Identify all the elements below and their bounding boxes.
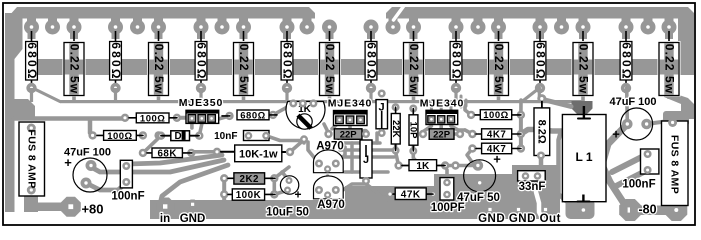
- svg-text:680Ω: 680Ω: [109, 42, 123, 80]
- svg-text:10P: 10P: [408, 122, 419, 140]
- svg-text:22P: 22P: [340, 129, 358, 140]
- svg-text:100Ω: 100Ω: [483, 110, 508, 121]
- svg-text:22K: 22K: [390, 120, 401, 138]
- svg-text:100Ω: 100Ω: [107, 131, 132, 142]
- svg-text:10nF: 10nF: [214, 131, 237, 142]
- svg-text:0.22 5w: 0.22 5w: [492, 44, 506, 94]
- svg-text:680Ω: 680Ω: [619, 42, 633, 80]
- svg-text:2K2: 2K2: [240, 174, 260, 185]
- svg-text:FUS 8 AMP: FUS 8 AMP: [25, 129, 37, 188]
- svg-text:MJE340: MJE340: [420, 98, 465, 110]
- svg-text:MJE340: MJE340: [328, 97, 373, 109]
- svg-text:680Ω: 680Ω: [364, 42, 378, 80]
- svg-text:0.22 5w: 0.22 5w: [237, 44, 251, 94]
- svg-text:10uF 50: 10uF 50: [266, 207, 309, 219]
- svg-text:0.22 5w: 0.22 5w: [323, 44, 337, 94]
- svg-text:1K: 1K: [416, 161, 430, 172]
- svg-text:47uF 50: 47uF 50: [457, 192, 500, 204]
- svg-text:0.22 5w: 0.22 5w: [662, 44, 676, 94]
- svg-text:-80: -80: [638, 203, 656, 217]
- svg-text:4K7: 4K7: [487, 130, 507, 141]
- svg-text:100Ω: 100Ω: [140, 113, 165, 124]
- svg-text:MJE350: MJE350: [179, 97, 224, 109]
- svg-text:680Ω: 680Ω: [194, 42, 208, 80]
- svg-text:0.22 5w: 0.22 5w: [576, 44, 590, 94]
- svg-text:100K: 100K: [236, 190, 261, 201]
- svg-text:680Ω: 680Ω: [25, 42, 39, 80]
- svg-text:GND GND Out: GND GND Out: [478, 213, 561, 225]
- svg-text:22P: 22P: [433, 129, 451, 140]
- svg-text:GND: GND: [180, 213, 206, 225]
- svg-text:47uF 100: 47uF 100: [609, 96, 656, 108]
- svg-text:680Ω: 680Ω: [533, 42, 547, 80]
- svg-text:A970: A970: [317, 199, 345, 211]
- svg-text:680Ω: 680Ω: [280, 42, 294, 80]
- svg-text:+: +: [493, 152, 501, 167]
- svg-text:+80: +80: [81, 202, 103, 217]
- svg-text:10K-1w: 10K-1w: [239, 148, 278, 160]
- svg-text:68K: 68K: [157, 148, 176, 159]
- svg-text:L 1: L 1: [575, 150, 592, 164]
- svg-text:0.22 5w: 0.22 5w: [67, 44, 81, 94]
- svg-text:47K: 47K: [401, 189, 421, 200]
- svg-text:33nF: 33nF: [519, 181, 546, 193]
- svg-text:0.22 5w: 0.22 5w: [152, 44, 166, 94]
- svg-text:100nF: 100nF: [622, 179, 655, 191]
- svg-text:+: +: [294, 188, 301, 202]
- svg-text:D: D: [174, 131, 181, 142]
- svg-text:in: in: [160, 213, 170, 225]
- svg-text:+: +: [64, 155, 72, 170]
- svg-text:0.22 5w: 0.22 5w: [407, 44, 421, 94]
- svg-text:FUS 8 AMP: FUS 8 AMP: [669, 135, 681, 194]
- svg-text:100nF: 100nF: [111, 191, 144, 203]
- svg-text:8.2Ω: 8.2Ω: [535, 120, 547, 144]
- svg-text:680Ω: 680Ω: [240, 110, 265, 121]
- svg-text:+: +: [612, 127, 620, 142]
- svg-text:680Ω: 680Ω: [449, 42, 463, 80]
